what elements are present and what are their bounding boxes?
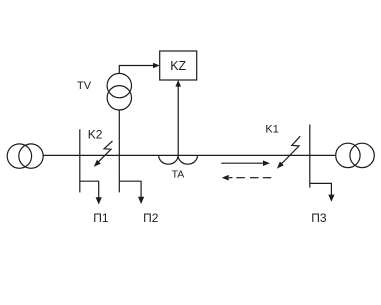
fault bolt K1 — [279, 136, 300, 166]
feeder line P1 — [79, 129, 81, 192]
current transformer TA — [159, 155, 198, 164]
arrowhead feeder P1 — [96, 197, 102, 204]
svg-text:K2: K2 — [88, 128, 103, 142]
wire TV to KZ — [119, 66, 153, 74]
svg-text:П2: П2 — [143, 211, 159, 225]
arrowhead into KZ left — [153, 63, 160, 69]
arrow power flow solid — [221, 162, 264, 164]
svg-text:TA: TA — [172, 169, 185, 181]
svg-text:K1: K1 — [265, 123, 278, 135]
svg-text:П3: П3 — [311, 211, 327, 225]
arrowhead feeder P3 — [328, 195, 334, 202]
arrowhead bolt K2 — [92, 160, 101, 169]
voltage transformer TV — [107, 73, 131, 110]
feeder line P3 — [309, 124, 311, 187]
relay box KZ — [160, 51, 197, 80]
wire TV bottom to bus — [118, 110, 120, 155]
fault bolt K2 — [96, 141, 112, 164]
wire TA to KZ — [177, 86, 179, 156]
svg-text:П1: П1 — [93, 211, 109, 225]
wire bus — [43, 154, 336, 156]
arrowhead bolt K1 — [275, 162, 284, 171]
transformer T1 (left source) — [7, 144, 43, 168]
svg-text:TV: TV — [77, 80, 92, 92]
arrowhead solid right — [263, 160, 270, 166]
svg-text:KZ: KZ — [170, 59, 186, 73]
feeder branch P3 — [310, 183, 332, 195]
feeder branch P2 — [119, 181, 141, 197]
feeder branch P1 — [80, 181, 99, 198]
arrowhead feeder P2 — [138, 197, 144, 204]
transformer T2 (right source) — [336, 143, 375, 167]
arrowhead dashed left — [222, 175, 229, 181]
feeder line P2 — [118, 155, 120, 192]
arrowhead into KZ bottom — [175, 80, 181, 87]
arrow power flow dashed — [229, 177, 271, 179]
